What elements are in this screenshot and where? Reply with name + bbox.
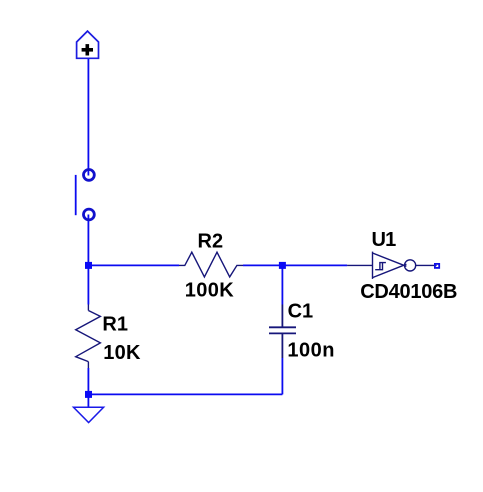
svg-text:100K: 100K	[185, 279, 234, 301]
svg-text:10K: 10K	[103, 342, 141, 364]
svg-text:R2: R2	[198, 231, 224, 253]
svg-text:C1: C1	[288, 301, 314, 323]
svg-text:CD40106B: CD40106B	[360, 281, 457, 303]
svg-text:R1: R1	[102, 313, 128, 335]
svg-text:U1: U1	[372, 229, 397, 251]
svg-text:100n: 100n	[287, 339, 335, 361]
